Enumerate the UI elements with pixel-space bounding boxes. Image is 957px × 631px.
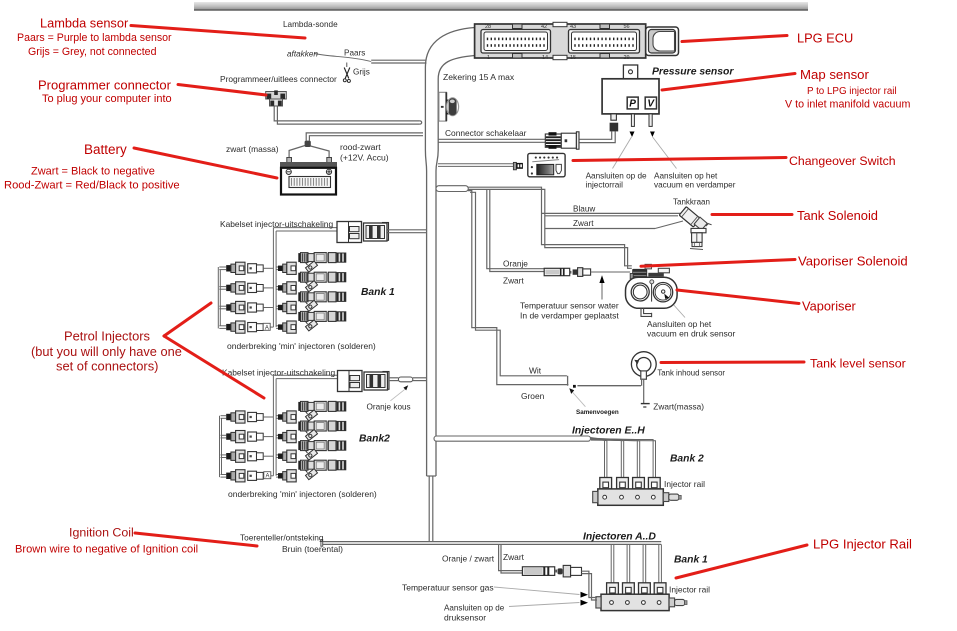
svg-text:29: 29 <box>624 55 630 61</box>
svg-text:28: 28 <box>485 24 491 30</box>
svg-text:Lambda-sonde: Lambda-sonde <box>283 20 338 29</box>
wire programmer-connector to harness <box>274 107 420 121</box>
svg-text:injectorrail: injectorrail <box>586 180 623 189</box>
fuse Zekering 15A <box>439 92 459 121</box>
svg-text:Aansluiten op het: Aansluiten op het <box>647 319 712 329</box>
pointer line vaporiser label <box>674 305 685 318</box>
svg-text:Vaporiser Solenoid: Vaporiser Solenoid <box>798 254 908 269</box>
bank left bus wire <box>217 267 219 328</box>
wire to vaporiser solenoid <box>591 271 631 273</box>
svg-text:A: A <box>265 325 269 331</box>
petrol injector <box>298 272 346 292</box>
svg-text:Tank Solenoid: Tank Solenoid <box>797 208 878 223</box>
ground wire Zwart massa <box>643 379 645 403</box>
svg-text:zwart (massa): zwart (massa) <box>226 144 279 154</box>
pointer arrow oranje kous <box>403 385 408 390</box>
pair A wire to tank + vaporiser solenoids <box>468 187 632 266</box>
svg-text:Programmer connector: Programmer connector <box>38 78 172 93</box>
bank center bus wires <box>272 375 274 476</box>
petrol injector connector row <box>219 282 296 294</box>
pair B wire to Wit/Groen (tank level) <box>468 191 568 385</box>
petrol injector connector row <box>221 431 297 443</box>
scissors (cut Grijs wire) <box>343 63 350 83</box>
pointer arrow temp sensor water <box>599 275 604 283</box>
bank 1 bus-to-kabelset wires <box>273 227 337 229</box>
svg-text:Battery: Battery <box>84 142 127 157</box>
wire Zwart to tank solenoid <box>545 228 655 230</box>
svg-text:Brown wire to negative of Igni: Brown wire to negative of Ignition coil <box>15 544 198 556</box>
bank left bus wire <box>219 416 221 477</box>
svg-text:vacuum en verdamper: vacuum en verdamper <box>654 180 736 189</box>
zwart dropper to temp sensor gas <box>499 544 522 570</box>
svg-text:P to LPG injector rail: P to LPG injector rail <box>807 86 897 97</box>
svg-text:42: 42 <box>541 24 547 30</box>
svg-text:Kabelset injector-uitschakelin: Kabelset injector-uitschakeling <box>222 368 335 378</box>
injectoren A..D bus wire <box>323 541 662 543</box>
wire kabelset bank1 to harness <box>388 229 427 231</box>
svg-text:onderbreking 'min' injectoren: onderbreking 'min' injectoren (solderen) <box>227 341 376 351</box>
bank 2 bus-to-kabelset wires <box>273 374 337 376</box>
svg-text:set of connectors): set of connectors) <box>56 359 158 374</box>
wire to changeover switch <box>438 163 513 165</box>
junction samenvoegen <box>567 376 569 386</box>
svg-text:Injectoren A..D: Injectoren A..D <box>583 532 656 543</box>
injector rail bank 2 (E..H) <box>600 478 612 489</box>
petrol injector connector row <box>219 301 296 313</box>
svg-text:Tank inhoud sensor: Tank inhoud sensor <box>657 369 725 378</box>
svg-text:Aansluiten op de: Aansluiten op de <box>586 171 647 180</box>
wire harness trunk tube from ECU <box>425 28 474 477</box>
battery B1 <box>280 158 337 195</box>
svg-text:aftakken: aftakken <box>287 50 318 59</box>
svg-text:Tank level sensor: Tank level sensor <box>810 357 906 371</box>
svg-text:Connector schakelaar: Connector schakelaar <box>445 128 527 138</box>
tank solenoid (Tankkraan) V1 <box>679 207 700 227</box>
svg-text:Bank 2: Bank 2 <box>670 454 704 465</box>
svg-text:LPG ECU: LPG ECU <box>797 31 853 46</box>
petrol injector connector row <box>219 321 296 333</box>
wire kabelset bank2 to harness - oranje kous sleeve <box>389 377 398 379</box>
svg-text:Tankkraan: Tankkraan <box>673 198 710 207</box>
svg-text:Paars: Paars <box>344 49 365 58</box>
svg-text:Temperatuur sensor gas: Temperatuur sensor gas <box>402 583 494 593</box>
svg-text:Zwart: Zwart <box>503 276 524 286</box>
svg-text:Injector rail: Injector rail <box>669 585 710 595</box>
svg-text:In de verdamper geplaatst: In de verdamper geplaatst <box>520 311 619 321</box>
svg-text:Changeover Switch: Changeover Switch <box>789 154 896 168</box>
temp sensor gas inline connector <box>522 565 581 577</box>
svg-text:Injector rail: Injector rail <box>664 479 705 489</box>
wire temp gas to rail <box>582 571 598 597</box>
kabelset connector pair <box>337 222 389 243</box>
svg-text:Rood-Zwart = Red/Black to posi: Rood-Zwart = Red/Black to positive <box>4 180 180 192</box>
svg-text:1: 1 <box>487 55 490 61</box>
petrol injector <box>298 421 346 441</box>
svg-text:Paars = Purple to lambda senso: Paars = Purple to lambda sensor <box>17 32 172 44</box>
petrol injector <box>298 401 346 421</box>
injector rail bank 1 (A..D) <box>607 583 619 594</box>
battery terminal wires <box>289 146 305 158</box>
marker A bank1 <box>263 323 270 330</box>
svg-text:onderbreking 'min' injectoren: onderbreking 'min' injectoren (solderen) <box>228 489 377 499</box>
injectoren E..H harness tube <box>434 436 591 441</box>
E..H injector wires <box>591 438 605 478</box>
lambda wire (Paars) to harness <box>371 59 426 61</box>
black text labels <box>220 20 736 623</box>
svg-text:Oranje kous: Oranje kous <box>367 403 411 412</box>
wire to connector schakelaar <box>438 138 545 140</box>
petrol injector <box>298 311 346 331</box>
pointer line aftakken <box>315 54 372 62</box>
svg-text:Bank 1: Bank 1 <box>674 555 708 566</box>
A..D injector wires <box>610 544 612 582</box>
LPG ECU connector block U1 <box>475 22 679 61</box>
svg-text:Vaporiser: Vaporiser <box>802 299 857 314</box>
petrol injector <box>298 441 346 461</box>
svg-text:Kabelset injector-uitschakelin: Kabelset injector-uitschakeling <box>220 219 333 229</box>
svg-text:Blauw: Blauw <box>573 205 595 214</box>
svg-text:Zwart: Zwart <box>503 552 525 562</box>
svg-text:Zwart: Zwart <box>573 219 594 228</box>
bank center bus wires <box>272 228 274 328</box>
vaporiser solenoid L1 <box>630 264 669 282</box>
red pointer lines <box>131 26 807 579</box>
svg-text:Zwart(massa): Zwart(massa) <box>653 402 704 412</box>
svg-text:Injectoren E..H: Injectoren E..H <box>572 426 645 437</box>
svg-text:Aansluiten op de: Aansluiten op de <box>444 604 505 613</box>
svg-text:Zekering 15 A max: Zekering 15 A max <box>443 72 515 82</box>
svg-text:P: P <box>629 99 636 110</box>
svg-text:14: 14 <box>542 55 548 61</box>
harness stub tube (fork to solenoid wires) <box>436 186 468 192</box>
svg-text:Oranje / zwart: Oranje / zwart <box>442 554 495 564</box>
window top bar (screenshot artifact) <box>194 2 808 10</box>
petrol injector connector row <box>221 470 297 482</box>
svg-text:(but you will only have one: (but you will only have one <box>31 344 182 359</box>
svg-text:Samenvoegen: Samenvoegen <box>576 409 619 416</box>
wire Blauw to tank solenoid <box>542 212 682 214</box>
temp sensor water inline connector <box>544 268 590 277</box>
svg-text:vacuum en druk sensor: vacuum en druk sensor <box>647 329 736 339</box>
svg-text:Oranje: Oranje <box>503 259 528 269</box>
petrol injector connector row <box>219 262 296 274</box>
svg-text:Temperatuur sensor water: Temperatuur sensor water <box>520 301 619 311</box>
programmer connector (Programmeer/uitlees) <box>266 90 287 106</box>
svg-text:Bruin (toerental): Bruin (toerental) <box>282 544 343 554</box>
harness trunk lower pair <box>428 477 430 542</box>
petrol injector <box>298 253 346 273</box>
petrol injector connector row <box>221 411 297 423</box>
svg-text:Ignition Coil: Ignition Coil <box>69 526 134 540</box>
svg-text:Petrol Injectors: Petrol Injectors <box>64 329 150 344</box>
wire connector schakelaar to map sensor pin <box>579 131 611 139</box>
single wire to tank level sensor <box>577 385 641 387</box>
svg-text:Pressure sensor: Pressure sensor <box>652 67 734 78</box>
vaporiser body <box>626 277 678 317</box>
petrol injector connector row <box>221 450 297 462</box>
svg-text:Groen: Groen <box>521 391 545 401</box>
svg-text:A: A <box>266 474 270 480</box>
svg-text:To plug your computer into: To plug your computer into <box>42 93 172 105</box>
map sensor (Pressure sensor) U2 <box>602 65 676 169</box>
svg-text:LPG Injector Rail: LPG Injector Rail <box>813 537 912 552</box>
petrol injector <box>298 292 346 312</box>
kabelset connector pair <box>338 371 390 392</box>
svg-text:(+12V. Accu): (+12V. Accu) <box>340 153 389 163</box>
tank level sensor <box>631 352 656 379</box>
svg-text:15: 15 <box>570 55 576 61</box>
svg-text:Lambda sensor: Lambda sensor <box>40 16 129 31</box>
changeover switch S1 <box>513 153 565 176</box>
svg-text:Bank 1: Bank 1 <box>361 287 395 298</box>
svg-text:Grijs: Grijs <box>353 68 370 77</box>
svg-text:56: 56 <box>624 24 630 30</box>
connector schakelaar 3-pin <box>545 132 579 149</box>
svg-text:Toerenteller/ontsteking: Toerenteller/ontsteking <box>240 533 324 543</box>
svg-text:Programmeer/uitlees connector: Programmeer/uitlees connector <box>220 74 337 84</box>
pointer arrow samenvoegen <box>569 388 574 394</box>
svg-text:Wit: Wit <box>529 366 542 376</box>
svg-text:Bank2: Bank2 <box>359 434 390 445</box>
pair C wire Oranje/Zwart to temp sensor water <box>487 189 544 268</box>
marker A bank2 <box>264 472 271 479</box>
svg-text:Zwart = Black to negative: Zwart = Black to negative <box>31 166 155 178</box>
petrol injector <box>298 460 346 480</box>
battery wire rood-zwart +12V to harness <box>306 133 423 141</box>
svg-text:druksensor: druksensor <box>444 613 486 623</box>
svg-text:Grijs = Grey, not connected: Grijs = Grey, not connected <box>28 46 157 58</box>
svg-text:43: 43 <box>570 24 576 30</box>
svg-text:V to inlet manifold vacuum: V to inlet manifold vacuum <box>785 99 910 111</box>
svg-text:Map sensor: Map sensor <box>800 67 870 82</box>
svg-text:Aansluiten op het: Aansluiten op het <box>654 171 718 180</box>
svg-text:rood-zwart: rood-zwart <box>340 142 381 152</box>
bruin toerental wire end <box>321 540 323 547</box>
pointer arrows to rail <box>581 592 589 598</box>
